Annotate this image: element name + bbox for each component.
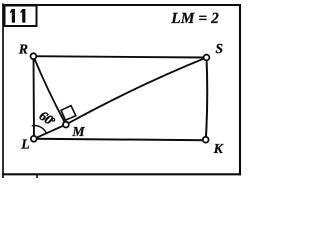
svg-text:LM = 2: LM = 2 [170,10,219,27]
svg-text:L: L [20,136,29,151]
svg-text:S: S [215,41,223,56]
svg-text:M: M [71,124,85,139]
svg-text:R: R [18,42,28,57]
svg-text:K: K [213,141,224,156]
